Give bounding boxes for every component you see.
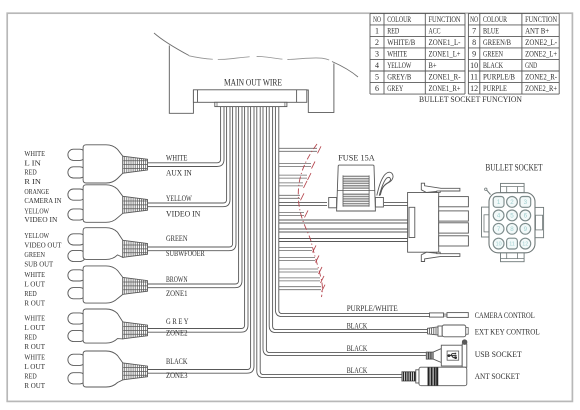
svg-text:6: 6 xyxy=(524,213,528,220)
svg-text:ZONE3: ZONE3 xyxy=(166,370,188,380)
svg-text:12: 12 xyxy=(470,83,478,93)
svg-text:B+: B+ xyxy=(429,60,437,70)
pin 4 blade xyxy=(439,236,469,246)
svg-text:GREY: GREY xyxy=(387,83,403,93)
4-blade connector key slot xyxy=(409,207,415,237)
cavity 4 xyxy=(493,210,504,221)
svg-text:ANT B+: ANT B+ xyxy=(525,26,549,36)
svg-text:RED: RED xyxy=(24,374,36,381)
svg-text:WHITE: WHITE xyxy=(24,355,45,362)
wire stub 5 (unused) xyxy=(279,195,300,198)
svg-text:GREEN: GREEN xyxy=(483,49,504,59)
svg-text:WHITE: WHITE xyxy=(24,316,45,323)
svg-text:YELLOW: YELLOW xyxy=(24,208,49,215)
cavity 6 xyxy=(520,210,531,221)
svg-text:RED: RED xyxy=(24,335,36,342)
svg-text:R OUT: R OUT xyxy=(24,344,45,351)
connector bottom latch xyxy=(421,252,460,261)
svg-text:BLACK: BLACK xyxy=(347,344,368,353)
svg-text:VIDEO IN: VIDEO IN xyxy=(166,209,201,219)
head unit chassis outline xyxy=(154,33,358,77)
RCA connector ZONE3 xyxy=(68,351,148,387)
red cut slash marks xyxy=(301,146,326,291)
svg-text:L OUT: L OUT xyxy=(24,325,45,332)
svg-text:MAIN OUT WIRE: MAIN OUT WIRE xyxy=(224,77,282,87)
pin 3 blade xyxy=(439,223,469,233)
svg-text:7: 7 xyxy=(472,26,477,36)
connector top latch xyxy=(421,183,460,192)
svg-text:ANT SOCKET: ANT SOCKET xyxy=(475,372,520,381)
wire stub 3 (unused) xyxy=(279,175,307,178)
camera control plug xyxy=(430,313,444,317)
svg-text:GREY/B: GREY/B xyxy=(387,72,411,82)
wire to 4-pin connector pin2 xyxy=(279,219,408,221)
svg-text:RED: RED xyxy=(24,291,36,298)
svg-text:WHITE: WHITE xyxy=(24,272,45,279)
cavity 7 xyxy=(493,223,504,234)
svg-text:ZONE2_R+: ZONE2_R+ xyxy=(525,83,557,93)
fuse holder wire loop xyxy=(377,172,393,195)
bullet socket left tab xyxy=(482,207,491,237)
svg-text:L OUT: L OUT xyxy=(24,282,45,289)
svg-text:7: 7 xyxy=(497,226,501,233)
svg-text:WHITE: WHITE xyxy=(166,152,188,162)
RCA connector ZONE2 xyxy=(68,309,148,343)
svg-text:ZONE2_L+: ZONE2_L+ xyxy=(525,49,557,59)
svg-text:VIDEO IN: VIDEO IN xyxy=(24,217,57,224)
wire stub 10 (unused) xyxy=(279,278,320,281)
svg-text:BLACK: BLACK xyxy=(347,322,368,331)
svg-text:WHITE: WHITE xyxy=(24,151,45,158)
svg-text:2: 2 xyxy=(510,199,514,206)
svg-text:9: 9 xyxy=(524,226,528,233)
ext key control plug boot xyxy=(428,327,439,335)
svg-text:AUX IN: AUX IN xyxy=(166,167,192,177)
svg-text:R IN: R IN xyxy=(24,179,41,186)
svg-text:ZONE2_R-: ZONE2_R- xyxy=(525,72,557,82)
bullet socket key pin xyxy=(486,190,490,195)
svg-text:G R E Y: G R E Y xyxy=(166,316,189,326)
cavity 8 xyxy=(507,223,518,234)
svg-text:11: 11 xyxy=(509,242,515,248)
RCA connector AUX IN xyxy=(68,145,148,183)
wire B+ feed to fuse xyxy=(279,202,327,204)
svg-text:YELLOW: YELLOW xyxy=(387,60,412,70)
svg-text:8: 8 xyxy=(472,37,476,47)
svg-text:VIDEO OUT: VIDEO OUT xyxy=(24,243,62,250)
pin 2 blade xyxy=(439,211,469,221)
wire video in (harness to RCA) xyxy=(148,107,231,207)
svg-text:BLACK: BLACK xyxy=(347,366,368,375)
svg-text:9: 9 xyxy=(472,49,476,59)
cavity 12 xyxy=(520,238,531,249)
svg-text:GREEN: GREEN xyxy=(166,233,188,243)
svg-text:ZONE1_L+: ZONE1_L+ xyxy=(429,49,461,59)
wire stub 8 (unused) xyxy=(279,258,315,261)
svg-text:GND: GND xyxy=(525,60,537,70)
svg-text:ZONE2_L-: ZONE2_L- xyxy=(525,37,557,47)
svg-text:ZONE1_L-: ZONE1_L- xyxy=(429,37,461,47)
svg-text:FUNCTION: FUNCTION xyxy=(429,14,462,24)
svg-text:NO: NO xyxy=(373,14,381,24)
svg-text:1: 1 xyxy=(497,199,501,206)
svg-text:4: 4 xyxy=(497,213,501,220)
svg-text:NO: NO xyxy=(470,14,478,24)
wire stub 9 (unused) xyxy=(279,269,318,272)
bullet socket body xyxy=(489,193,535,253)
svg-text:YELLOW: YELLOW xyxy=(166,193,192,203)
svg-text:CAMERA CONTROL: CAMERA CONTROL xyxy=(475,311,535,320)
wire zone2 (harness to RCA) xyxy=(148,107,249,333)
cavity 5 xyxy=(507,210,518,221)
svg-text:BULLET SOCKET: BULLET SOCKET xyxy=(486,162,543,172)
svg-text:FUNCTION: FUNCTION xyxy=(525,14,558,24)
svg-text:4: 4 xyxy=(375,60,380,70)
svg-text:YELLOW: YELLOW xyxy=(24,233,49,240)
svg-text:SUB OUT: SUB OUT xyxy=(24,262,54,269)
wire stub 1 (unused) xyxy=(279,148,317,151)
wire stub 6 (unused) xyxy=(279,212,304,215)
svg-text:5: 5 xyxy=(375,72,379,82)
svg-text:EXT KEY CONTROL: EXT KEY CONTROL xyxy=(475,328,540,337)
svg-text:3: 3 xyxy=(524,199,528,206)
svg-text:12: 12 xyxy=(522,242,528,248)
svg-text:PURPLE: PURPLE xyxy=(483,83,507,93)
svg-text:ORANGE: ORANGE xyxy=(24,189,49,196)
svg-text:WHITE/B: WHITE/B xyxy=(387,37,415,47)
svg-text:R OUT: R OUT xyxy=(24,383,45,390)
svg-text:10: 10 xyxy=(496,242,502,248)
cavity 2 xyxy=(507,197,518,208)
wire stub 11 (unused) xyxy=(279,287,321,290)
wire black to ant socket xyxy=(257,107,402,378)
svg-text:BLUE: BLUE xyxy=(483,26,499,36)
wire aux in (harness to RCA) xyxy=(148,107,225,167)
ant socket plug threads xyxy=(402,372,416,381)
pin 1 blade xyxy=(439,197,469,207)
ant socket plug body xyxy=(419,367,467,386)
bullet socket bottom tab xyxy=(501,252,525,261)
svg-text:FUSE 15A: FUSE 15A xyxy=(338,153,375,162)
svg-text:3: 3 xyxy=(375,49,379,59)
svg-text:COLOUR: COLOUR xyxy=(483,14,507,24)
svg-text:10: 10 xyxy=(470,60,478,70)
cavity 3 xyxy=(520,197,531,208)
RCA connector SUBWOOFER xyxy=(68,228,148,262)
pin function table xyxy=(370,13,559,94)
wire to 4-pin connector pin4 xyxy=(279,238,408,240)
svg-text:BULLET SOCKET FUNCYION: BULLET SOCKET FUNCYION xyxy=(419,94,523,104)
wire purple/white to camera control xyxy=(275,107,429,317)
usb trident icon xyxy=(448,353,457,359)
svg-text:BLACK: BLACK xyxy=(166,356,188,366)
svg-text:L OUT: L OUT xyxy=(24,364,45,371)
wire zone1 (harness to RCA) xyxy=(148,107,243,288)
usb socket plug xyxy=(426,352,433,359)
svg-text:6: 6 xyxy=(375,83,380,93)
ext key control plug body xyxy=(442,325,466,337)
main harness connector J1 xyxy=(193,90,306,103)
svg-text:WHITE: WHITE xyxy=(387,49,407,59)
svg-text:GREEN: GREEN xyxy=(24,252,45,259)
red dash-dot cut line xyxy=(298,144,322,297)
bullet socket top tab xyxy=(501,183,525,192)
svg-text:CAMERA IN: CAMERA IN xyxy=(24,198,61,205)
svg-text:ZONE1_R+: ZONE1_R+ xyxy=(429,83,461,93)
svg-text:PURPLE/WHITE: PURPLE/WHITE xyxy=(347,304,398,313)
wire zone3 (harness to RCA) xyxy=(148,107,255,374)
cavity 1 xyxy=(493,197,504,208)
svg-text:RED: RED xyxy=(24,170,36,177)
svg-text:RED: RED xyxy=(387,26,399,36)
svg-text:ZONE2: ZONE2 xyxy=(166,328,188,338)
svg-text:SUBWFOOER: SUBWFOOER xyxy=(166,248,205,258)
svg-text:COLOUR: COLOUR xyxy=(387,14,411,24)
wire fuse to 4-pin connector xyxy=(384,202,408,204)
cavity 10 xyxy=(493,238,504,249)
wire black to ext key control xyxy=(269,107,427,333)
svg-text:2: 2 xyxy=(375,37,379,47)
svg-text:BROWN: BROWN xyxy=(166,274,188,284)
svg-text:L IN: L IN xyxy=(24,160,41,167)
svg-text:11: 11 xyxy=(470,72,478,82)
svg-text:R OUT: R OUT xyxy=(24,301,45,308)
wire subwoofer (harness to RCA) xyxy=(148,107,237,251)
cavity 11 xyxy=(507,238,518,249)
fuse holder F1 xyxy=(329,165,384,211)
svg-text:ZONE1: ZONE1 xyxy=(166,288,188,298)
svg-text:USB SOCKET: USB SOCKET xyxy=(475,350,522,359)
RCA connector VIDEO IN xyxy=(68,185,148,223)
svg-text:ACC: ACC xyxy=(429,26,441,36)
svg-text:ZONE1_R-: ZONE1_R- xyxy=(429,72,461,82)
4-blade power connector body xyxy=(408,193,439,253)
cavity 9 xyxy=(520,223,531,234)
wire stub 7 (unused) xyxy=(279,247,312,250)
svg-text:1: 1 xyxy=(375,26,379,36)
svg-text:GREEN/B: GREEN/B xyxy=(483,37,511,47)
svg-text:BLACK: BLACK xyxy=(483,60,504,70)
RCA connector ZONE1 xyxy=(68,266,148,303)
wire stub 2 (unused) xyxy=(279,164,311,167)
wire to 4-pin connector pin3 xyxy=(279,228,408,230)
bullet socket right tab xyxy=(535,207,544,237)
wire stub 4 (unused) xyxy=(279,183,303,186)
svg-text:8: 8 xyxy=(510,226,514,233)
svg-text:5: 5 xyxy=(510,213,514,220)
svg-text:PURPLE/B: PURPLE/B xyxy=(483,72,515,82)
wire black to usb socket xyxy=(263,107,426,356)
